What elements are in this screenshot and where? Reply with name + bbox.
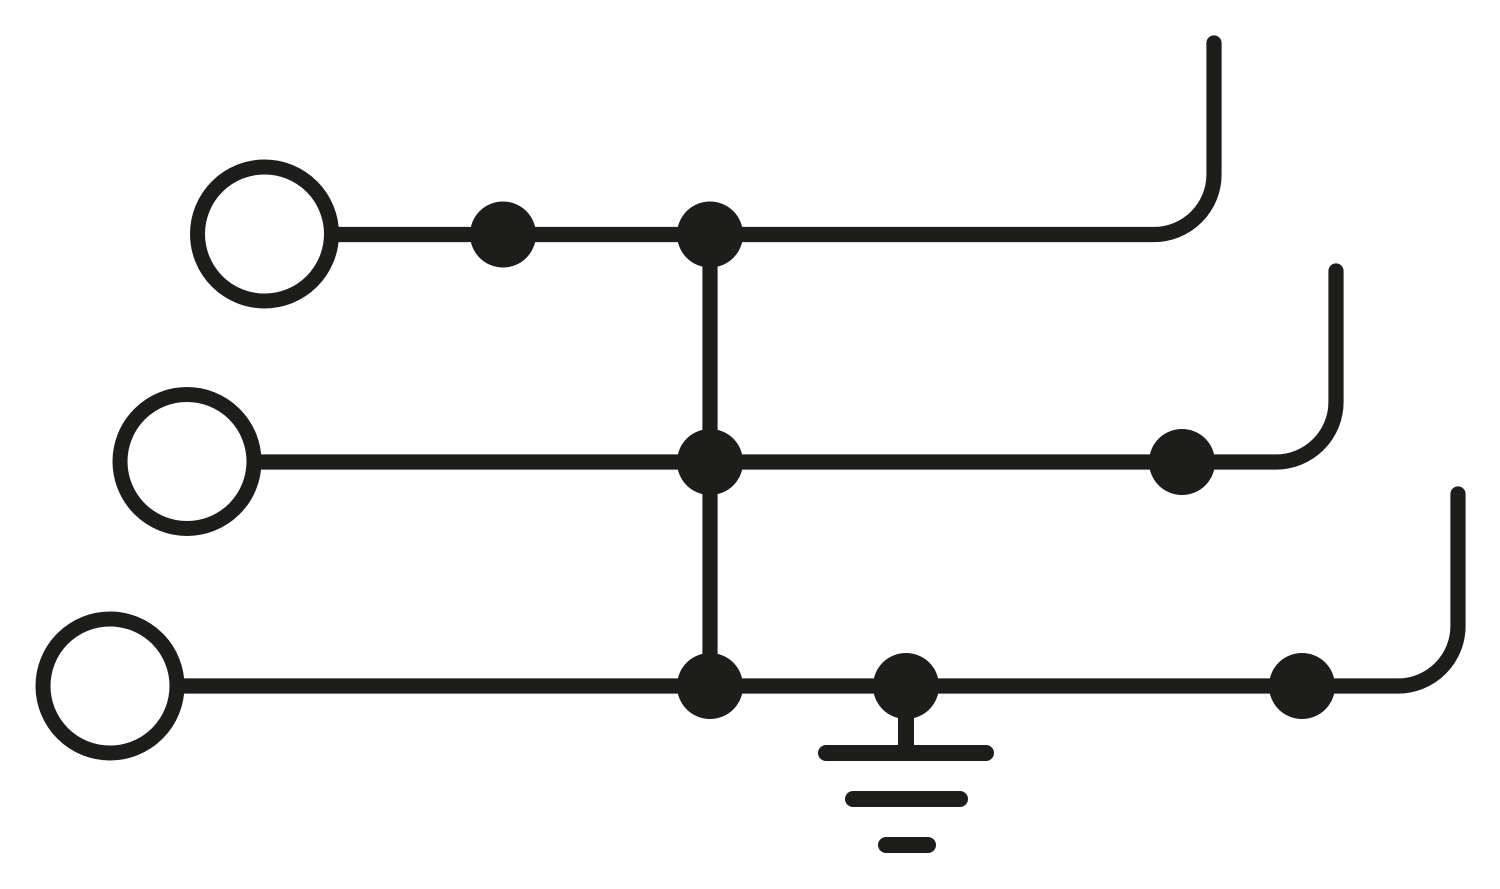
- ground: earth symbol bar 2 (medium): [853, 791, 960, 807]
- wire: level-3 conductor from terminal 3 to lower-right bend: [184, 494, 1458, 686]
- terminal circle 1 (top level clamp point): [198, 167, 332, 301]
- junction dot: node level-3 / bridge bus: [677, 653, 743, 719]
- wire: level-1 conductor from terminal 1 to top-right bend: [338, 43, 1214, 235]
- wire: vertical bridge bus joining the three levels at x=710: [702, 235, 717, 687]
- wire: level-2 conductor from terminal 2 to right bend: [261, 271, 1336, 462]
- junction dot: clamp contact on level-3 wire: [1269, 653, 1335, 719]
- junction dot: clamp contact on level-2 wire: [1149, 429, 1215, 495]
- junction dot: node level-2 / bridge bus: [677, 429, 743, 495]
- terminal circle 2 (middle level clamp point): [120, 395, 254, 529]
- ground: earth symbol bar 3 (short): [886, 837, 928, 853]
- terminal circle 3 (bottom level clamp point): [43, 619, 177, 753]
- junction dot: clamp contact on level-1 wire: [470, 202, 536, 268]
- junction dot: node level-1 / bridge bus: [677, 202, 743, 268]
- ground: earth symbol bar 1 (long): [826, 745, 986, 761]
- junction dot: ground tap node on level-3 wire: [873, 653, 939, 719]
- wire: ground stub from tap node: [898, 686, 914, 750]
